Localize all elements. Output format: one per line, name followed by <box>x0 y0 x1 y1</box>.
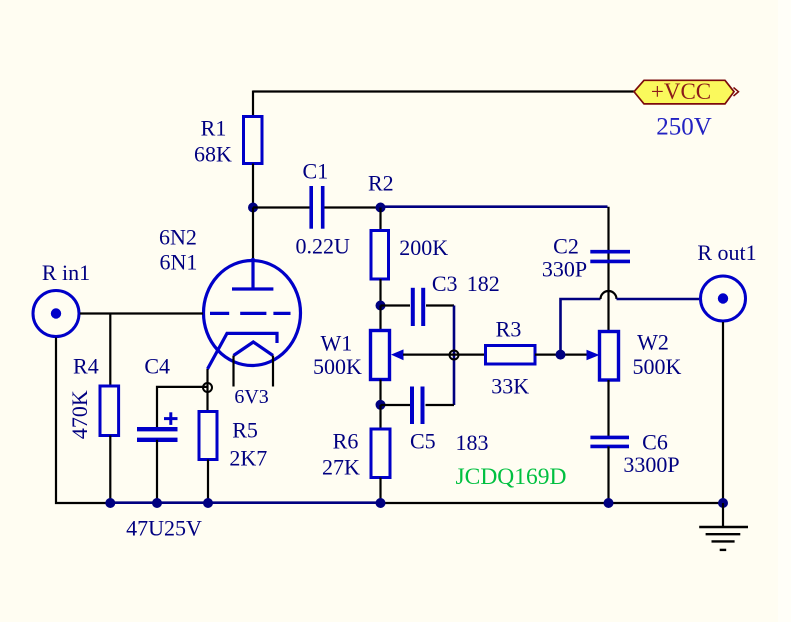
wire C1 to node B <box>325 206 381 208</box>
wire node B to C2 (blue) <box>381 205 608 208</box>
node D dot <box>376 400 386 410</box>
svg-text:R out1: R out1 <box>697 240 756 265</box>
svg-text:C4: C4 <box>144 354 170 379</box>
svg-text:183: 183 <box>456 430 489 455</box>
wire corner down to C2 and through to W2 top <box>607 207 609 331</box>
wire C4 top <box>157 387 207 427</box>
node A dot <box>248 203 258 213</box>
capacitor C5 <box>412 387 423 425</box>
hop arc over C2-W2 wire <box>601 291 617 299</box>
capacitor C2 <box>590 252 630 262</box>
svg-text:500K: 500K <box>633 354 682 379</box>
wire node A to C1 <box>253 206 310 208</box>
node C6 bottom dot <box>604 498 614 508</box>
svg-text:470K: 470K <box>67 390 92 439</box>
wire W1 bottom to node D <box>379 380 381 406</box>
bottom rail black right segment <box>381 502 724 504</box>
node ground dot <box>718 498 728 508</box>
node R6 bottom dot <box>376 498 386 508</box>
wire node D to R6 <box>379 405 381 429</box>
svg-text:27K: 27K <box>322 455 360 480</box>
wire C6 to bottom rail <box>607 446 609 503</box>
wire R1 bottom to node A <box>252 164 254 208</box>
bottom rail blue middle segment <box>110 501 380 504</box>
connector R out1 <box>701 276 746 321</box>
capacitor C1 <box>311 186 323 229</box>
svg-text:0.22U: 0.22U <box>296 234 351 259</box>
hop circle at cathode junction <box>203 383 212 392</box>
wire C4 to bottom rail <box>156 440 158 503</box>
wire R5 to bottom rail <box>207 460 209 504</box>
svg-text:+VCC: +VCC <box>651 79 711 104</box>
capacitor C3 <box>413 288 423 326</box>
wire R in1 to grid <box>80 312 203 314</box>
wire cathode to R5 <box>206 369 208 412</box>
svg-text:500K: 500K <box>313 354 362 379</box>
svg-text:182: 182 <box>467 271 500 296</box>
capacitor C4 <box>137 412 178 440</box>
svg-text:C2: C2 <box>553 234 579 259</box>
wire W2 bottom to C6 <box>607 380 609 438</box>
resistor R1 <box>244 117 263 164</box>
potentiometer W2 <box>600 332 619 381</box>
tube cathode <box>208 333 278 369</box>
svg-text:R4: R4 <box>73 354 99 379</box>
wire input to R4 <box>109 314 111 387</box>
svg-text:JCDQ169D: JCDQ169D <box>456 464 567 490</box>
tube grid (dashed) <box>210 312 291 315</box>
svg-text:6N2: 6N2 <box>159 225 197 250</box>
svg-text:33K: 33K <box>491 374 529 399</box>
svg-text:200K: 200K <box>399 235 448 260</box>
wire node B to R2 <box>379 208 381 231</box>
wire to ground <box>722 503 724 527</box>
wire C5 right to riser <box>426 404 455 406</box>
capacitor C6 <box>590 437 629 446</box>
svg-text:R3: R3 <box>496 317 522 342</box>
tube V1 envelope <box>204 261 301 366</box>
wire W1 wiper to R3 <box>403 354 486 356</box>
power flag +VCC <box>634 79 739 104</box>
ground symbol <box>699 527 748 550</box>
resistor R6 <box>371 429 390 478</box>
resistor R2 <box>371 231 389 280</box>
wire R3 to node E <box>535 354 587 356</box>
resistor R3 <box>486 346 536 365</box>
wire R in1 down to bottom rail <box>56 338 110 504</box>
svg-text:R1: R1 <box>201 116 227 141</box>
W2 wiper arrow <box>587 350 600 360</box>
svg-text:68K: 68K <box>194 142 232 167</box>
wire node E riser to output (blue) <box>561 299 601 355</box>
svg-text:R5: R5 <box>232 418 258 443</box>
svg-text:R2: R2 <box>368 171 394 196</box>
wire node C to C3 <box>381 304 411 306</box>
svg-text:6V3: 6V3 <box>234 386 268 408</box>
W1 wiper arrow <box>391 349 404 360</box>
svg-text:W1: W1 <box>321 331 353 356</box>
wire hop to R out1 (blue) <box>617 298 700 301</box>
wire R2 bottom to node C <box>379 279 381 306</box>
wire R4 to bottom rail <box>109 436 111 504</box>
svg-text:C1: C1 <box>303 159 329 184</box>
svg-text:C5: C5 <box>410 429 436 454</box>
svg-text:R6: R6 <box>333 429 359 454</box>
svg-text:W2: W2 <box>637 330 669 355</box>
svg-text:250V: 250V <box>656 114 712 141</box>
wire node C to W1 <box>379 306 381 331</box>
svg-text:47U25V: 47U25V <box>126 516 202 541</box>
node E dot <box>556 350 566 360</box>
connector R in1 <box>33 291 79 337</box>
heater lead left <box>232 356 234 387</box>
tube anode <box>232 258 273 289</box>
wire riser C3-C5 (navy) <box>453 306 456 406</box>
node R4 bottom dot <box>105 498 115 508</box>
resistor R5 <box>199 412 217 460</box>
wire node A to tube anode <box>252 208 254 259</box>
node B dot <box>376 203 386 213</box>
wire R6 to bottom rail <box>379 478 381 504</box>
node C4 bottom dot <box>152 498 162 508</box>
wire VCC rail horizontal <box>253 90 634 92</box>
svg-text:R in1: R in1 <box>42 260 90 285</box>
heater lead right <box>272 356 274 387</box>
wire R out1 down to ground node <box>722 322 724 503</box>
svg-text:C3: C3 <box>432 271 458 296</box>
svg-text:330P: 330P <box>542 257 587 282</box>
wire C3 right to riser <box>426 304 454 306</box>
tube heater <box>234 342 274 356</box>
svg-text:2K7: 2K7 <box>229 446 267 471</box>
node C dot <box>376 301 386 311</box>
wire VCC rail to R1 top <box>252 91 254 117</box>
wire node D to C5 <box>381 404 411 406</box>
resistor R4 <box>100 386 119 436</box>
svg-text:6N1: 6N1 <box>160 250 198 275</box>
svg-text:C6: C6 <box>642 430 668 455</box>
svg-text:3300P: 3300P <box>623 452 679 477</box>
node R5 bottom dot <box>203 498 213 508</box>
potentiometer W1 <box>371 331 390 380</box>
hop circle wiper crossing <box>450 351 459 360</box>
